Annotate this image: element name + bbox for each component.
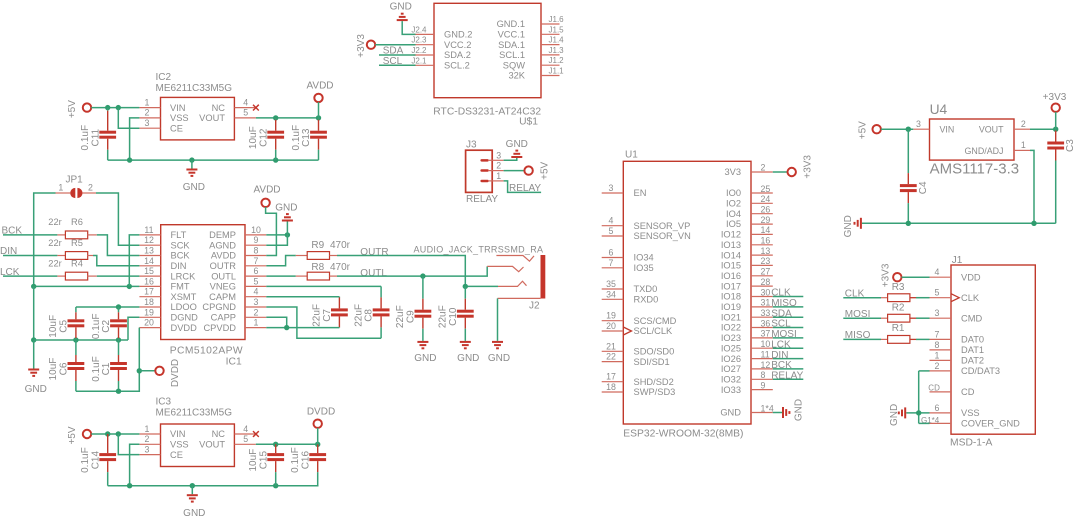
jumper JP1: [56, 174, 97, 198]
RTC pin J1.2: [541, 56, 564, 65]
J3 pin 2 contact: [480, 161, 503, 172]
svg-text:3: 3: [496, 150, 501, 160]
supply DVDD (IC3 out): [307, 406, 335, 428]
svg-text:GND: GND: [25, 384, 47, 395]
node GND tap (IC3): [190, 483, 195, 488]
J1 pin 1 DAT2: [930, 350, 952, 360]
svg-text:AMS1117-3.3: AMS1117-3.3: [930, 161, 1020, 178]
svg-text:13: 13: [144, 246, 154, 256]
capacitor C10: [438, 286, 474, 341]
svg-text:DVDD: DVDD: [170, 359, 181, 387]
svg-text:10: 10: [761, 339, 771, 349]
svg-text:470r: 470r: [330, 262, 351, 273]
svg-text:LCK: LCK: [771, 339, 791, 350]
wire GND mid rail: [34, 339, 128, 341]
wire pin10 DEMP: [266, 234, 287, 236]
svg-text:C11: C11: [90, 128, 101, 146]
svg-text:VOUT: VOUT: [199, 440, 225, 450]
svg-text:IO5: IO5: [726, 219, 741, 229]
svg-text:VCC.1: VCC.1: [498, 30, 525, 40]
net label MISO (U1): [771, 298, 803, 309]
svg-text:CAPM: CAPM: [209, 292, 236, 302]
svg-text:VIN: VIN: [170, 429, 186, 439]
wire R6 to BCK pin13: [97, 235, 140, 256]
IC2 pin 4 NC (unconnected): [234, 97, 258, 110]
svg-text:2: 2: [761, 162, 766, 172]
svg-text:+5V: +5V: [858, 121, 869, 139]
svg-text:SQW: SQW: [503, 60, 525, 70]
resistor R6 22r: [48, 217, 97, 239]
IC1 pin 12 SCK: [139, 235, 160, 245]
svg-text:DEMP: DEMP: [209, 230, 236, 240]
IC3 pin 4 NC (unconnected): [234, 424, 258, 437]
svg-text:3: 3: [916, 119, 921, 129]
wire GND rail (IC3): [108, 485, 319, 487]
supply +5V (U4): [858, 121, 881, 139]
svg-text:1: 1: [254, 318, 259, 328]
svg-text:+3V3: +3V3: [881, 263, 892, 287]
svg-text:18: 18: [606, 382, 616, 392]
svg-text:14: 14: [144, 256, 154, 266]
node +5V/C11: [105, 105, 110, 110]
svg-text:IO19: IO19: [721, 302, 741, 312]
net label OUTL: [360, 268, 387, 279]
svg-text:R8: R8: [311, 262, 324, 273]
RTC pin J2.1: [411, 56, 434, 65]
J1 pin 7 DAT0: [930, 329, 952, 339]
svg-text:DVDD: DVDD: [307, 406, 335, 417]
svg-text:IO34: IO34: [634, 253, 654, 263]
svg-text:IC3: IC3: [156, 397, 172, 408]
wire RTC VCC.2: [375, 44, 415, 46]
wire mid rail down to ground: [33, 340, 35, 369]
svg-text:4: 4: [243, 424, 248, 434]
capacitor C2: [91, 307, 127, 340]
svg-text:RELAY: RELAY: [466, 194, 498, 205]
svg-text:SHD/SD2: SHD/SD2: [634, 377, 674, 387]
svg-text:3: 3: [935, 308, 940, 318]
node VOUT/C12: [273, 115, 278, 120]
svg-text:GND: GND: [183, 508, 205, 519]
svg-text:GND: GND: [506, 139, 528, 150]
svg-text:OUTR: OUTR: [210, 261, 237, 271]
J1 pin 4 VDD: [930, 267, 952, 277]
svg-text:R9: R9: [311, 240, 324, 251]
net label MOSI + wire: [843, 309, 881, 320]
svg-text:R3: R3: [892, 282, 905, 293]
svg-text:VIN: VIN: [940, 125, 955, 135]
svg-text:22: 22: [606, 352, 616, 362]
net label BCK (U1): [771, 360, 803, 371]
svg-text:C6: C6: [59, 362, 70, 375]
node VOUT/AVDD/C13: [316, 115, 321, 120]
capacitor C12: [248, 118, 284, 160]
wire jack sleeve to ground: [497, 298, 499, 341]
IC2 pin 1 VIN: [139, 97, 160, 107]
svg-text:34: 34: [606, 289, 616, 299]
J1 pin 6 VSS: [930, 403, 952, 413]
wire FLT to FMT: [129, 235, 139, 287]
IC1 pin 14 DIN: [139, 256, 160, 266]
svg-text:DAT2: DAT2: [961, 356, 984, 366]
node +5V/CE: [116, 105, 121, 110]
IC1 pin 11 FLT: [139, 225, 160, 235]
svg-text:25: 25: [761, 184, 771, 194]
net label LCK (U1): [771, 339, 803, 350]
svg-text:GND: GND: [889, 404, 900, 426]
net label SDA (U1): [771, 308, 803, 319]
svg-text:J2.2: J2.2: [411, 46, 427, 55]
svg-text:J1.3: J1.3: [549, 46, 565, 55]
net label DIN (U1): [771, 350, 803, 361]
U1 pin 13 IO14: [751, 246, 773, 256]
svg-text:+3V3: +3V3: [356, 34, 367, 58]
svg-text:DVDD: DVDD: [171, 323, 198, 333]
U1 pin 27 IO16: [751, 267, 773, 277]
svg-text:IO16: IO16: [721, 271, 741, 281]
svg-text:CD/DAT3: CD/DAT3: [961, 366, 1000, 376]
node VOUT/C3: [1053, 127, 1058, 132]
svg-text:J2: J2: [529, 301, 540, 312]
U1 pin 3 EN: [602, 183, 624, 193]
IC1 pin 4 CAPM: [245, 287, 266, 297]
wire OUTL to jack: [337, 266, 487, 276]
net label SCL (U1): [771, 319, 803, 330]
ground (C9): [414, 341, 436, 364]
svg-text:TXD0: TXD0: [634, 284, 658, 294]
RTC pin J1.3: [541, 46, 564, 55]
svg-text:2: 2: [145, 434, 150, 444]
ground (J3): [506, 139, 528, 158]
supply +5V (J3): [524, 161, 550, 179]
IC1 pin 8 AVDD: [245, 246, 266, 256]
svg-text:IO21: IO21: [721, 312, 741, 322]
svg-text:J2.1: J2.1: [411, 56, 427, 65]
svg-text:J1.2: J1.2: [549, 56, 565, 65]
resistor R1: [881, 323, 930, 343]
svg-text:GND: GND: [390, 2, 412, 13]
U1 pin 16 IO13: [751, 236, 773, 246]
ground (C10): [457, 341, 479, 364]
svg-text:GND: GND: [457, 353, 479, 364]
svg-text:2: 2: [254, 307, 259, 317]
IC3 pin 1 VIN: [139, 424, 160, 434]
capacitor C3: [1047, 129, 1076, 223]
capacitor C4: [900, 129, 929, 223]
ground (U1): [782, 399, 805, 421]
svg-text:1*4: 1*4: [761, 403, 774, 413]
regulator U4 AMS1117-3.3: [930, 102, 1020, 177]
net label RELAY + wire (J3 pin1): [504, 181, 542, 194]
svg-text:GND: GND: [488, 353, 510, 364]
svg-text:SCL.1: SCL.1: [499, 50, 525, 60]
svg-text:LDOO: LDOO: [171, 302, 197, 312]
wire VSS to GND rail: [130, 118, 140, 160]
IC1 pin 3 CPGND: [245, 297, 266, 307]
U1 pin 36 IO22: [751, 318, 773, 328]
svg-text:MSD-1-A: MSD-1-A: [950, 438, 992, 449]
wire 3V3 to +3V3: [773, 171, 788, 173]
svg-text:23: 23: [761, 256, 771, 266]
wire +5V to VIN (U4): [881, 128, 913, 130]
svg-text:GND.2: GND.2: [444, 30, 472, 40]
capacitor C16: [290, 444, 326, 485]
U1 pin 19 SCS/CMD: [602, 311, 624, 321]
svg-text:BCK: BCK: [771, 360, 792, 371]
U1 pin 26 IO4: [751, 205, 773, 215]
net label CLK + wire: [843, 289, 881, 300]
svg-text:SDO/SD0: SDO/SD0: [634, 347, 675, 357]
svg-text:J3: J3: [466, 139, 477, 150]
svg-text:IO18: IO18: [721, 292, 741, 302]
wire GND/ADJ drop: [1030, 150, 1034, 223]
svg-text:RXD0: RXD0: [634, 295, 659, 305]
wire +3V3 to VDD: [902, 276, 930, 278]
wire OUTR to jack: [337, 256, 465, 287]
svg-text:22r: 22r: [48, 238, 61, 248]
U1 pin 5 SENSOR_VN: [602, 226, 624, 236]
supply +3V3 (RTC): [356, 34, 375, 58]
svg-text:5: 5: [609, 226, 614, 236]
svg-text:C4: C4: [918, 181, 929, 194]
net label CLK (U1): [771, 288, 803, 299]
svg-text:8: 8: [761, 370, 766, 380]
node +5V/C14: [105, 431, 110, 436]
ground (J2 sleeve): [488, 341, 510, 364]
svg-text:9: 9: [254, 235, 259, 245]
svg-text:GND: GND: [275, 203, 297, 214]
svg-text:IO32: IO32: [721, 375, 741, 385]
svg-text:SENSOR_VN: SENSOR_VN: [634, 231, 691, 241]
svg-text:C16: C16: [300, 450, 311, 469]
capacitor C7: [312, 297, 348, 328]
IC3 pin 5 VOUT: [234, 434, 256, 444]
svg-text:SENSOR_VP: SENSOR_VP: [634, 221, 691, 231]
svg-text:470r: 470r: [330, 240, 351, 251]
IC1 pin 15 LRCK: [139, 266, 160, 276]
net label MISO + wire: [843, 330, 881, 341]
svg-text:LRCK: LRCK: [171, 271, 197, 281]
svg-text:NC: NC: [212, 429, 226, 439]
node VSS junction: [916, 410, 921, 415]
svg-text:C13: C13: [301, 128, 312, 147]
U1 pin 22 SDI/SD1: [602, 352, 624, 362]
svg-text:IO2: IO2: [726, 199, 741, 209]
capacitor C14: [80, 434, 116, 486]
svg-text:2: 2: [1021, 119, 1026, 129]
svg-text:GND: GND: [183, 182, 205, 193]
svg-text:CE: CE: [170, 450, 183, 460]
wire pin20 DVDD: [138, 327, 140, 329]
svg-text:5: 5: [935, 288, 940, 298]
IC1 pin 18 LDOO: [139, 297, 160, 307]
resistor R5 22r: [48, 238, 93, 260]
svg-text:R1: R1: [892, 323, 905, 334]
wire CAPM to C7: [266, 296, 339, 298]
supply +5V (IC2): [67, 100, 91, 118]
J1 pin 3 CMD: [930, 308, 952, 318]
svg-text:1: 1: [496, 171, 501, 181]
svg-text:5: 5: [254, 276, 259, 286]
U1 pin 37 IO23: [751, 329, 773, 339]
svg-text:20: 20: [606, 321, 616, 331]
node DVDD tap: [137, 368, 142, 373]
wire VSS to GND rail (IC3): [130, 444, 140, 485]
wire VNEG to C8: [266, 285, 381, 287]
wire J3 pin2 to +5V: [504, 170, 525, 172]
svg-text:DAT0: DAT0: [961, 335, 984, 345]
U1 pin 17 SHD/SD2: [602, 372, 624, 382]
IC1 pin 20 DVDD: [139, 318, 160, 328]
RTC pin J2.3: [411, 36, 434, 45]
node VSS/GND rail: [127, 157, 132, 162]
svg-text:+5V: +5V: [67, 100, 78, 118]
RTC pin J1.5: [541, 25, 564, 34]
RTC pin J1.6: [541, 15, 564, 24]
svg-text:C5: C5: [59, 319, 70, 332]
svg-text:3: 3: [609, 183, 614, 193]
svg-text:11: 11: [144, 225, 153, 235]
svg-text:RELAY: RELAY: [509, 183, 541, 194]
svg-text:OUTR: OUTR: [360, 247, 388, 258]
U1 pin 23 IO15: [751, 256, 773, 266]
svg-text:CE: CE: [170, 123, 183, 133]
svg-text:16: 16: [761, 236, 771, 246]
svg-text:3V3: 3V3: [724, 167, 741, 177]
node C15/GND rail: [273, 483, 278, 488]
svg-text:CMD: CMD: [961, 313, 982, 323]
capacitor C13: [291, 118, 327, 160]
U1 pin 6 IO34: [602, 248, 624, 258]
wire DVDD to supply: [139, 370, 155, 372]
capacitor C9: [395, 276, 431, 341]
svg-text:VSS: VSS: [170, 113, 189, 123]
node FLT drop/FMT: [127, 284, 132, 289]
capacitor C11: [80, 108, 116, 161]
svg-text:C12: C12: [258, 128, 269, 147]
svg-text:DIN: DIN: [171, 261, 187, 271]
wire R5 to DIN pin14: [93, 256, 139, 266]
node CAPP/CPVDD: [284, 325, 289, 330]
wire LDOO rail: [76, 306, 139, 308]
svg-text:20: 20: [144, 318, 154, 328]
svg-text:36: 36: [761, 318, 771, 328]
wire DGND to mid rail: [128, 317, 139, 340]
svg-text:VDD: VDD: [961, 272, 981, 282]
ground (U4): [843, 215, 862, 237]
wire DVDD to rail (IC3): [317, 428, 319, 444]
audio jack J2 AUDIO_JACK_TRRSSMD_RA: [487, 255, 545, 312]
wire VOUT rail (IC3): [256, 443, 319, 445]
IC1 pin 2 CAPP: [245, 307, 266, 317]
node C2/LDOO: [116, 304, 121, 309]
svg-text:8: 8: [254, 246, 259, 256]
node GND tap: [189, 157, 194, 162]
wire AVDD to pin8: [266, 207, 277, 256]
resistor R3: [881, 282, 930, 302]
microSD socket J1 MSD-1-A: [950, 255, 1035, 449]
U1 pin 18 SWP/SD3: [602, 382, 624, 392]
wire R4 to LRCK pin15: [97, 275, 140, 277]
svg-text:6: 6: [935, 403, 940, 413]
IC1 pin 19 DGND: [139, 307, 160, 317]
svg-text:IO13: IO13: [721, 240, 741, 250]
wire left GND drop: [33, 286, 35, 340]
U1 pin 20 SCL/CLK: [602, 321, 632, 335]
svg-text:7: 7: [254, 256, 259, 266]
capacitor C5: [48, 307, 84, 340]
U1 pin 24 IO2: [751, 194, 773, 204]
svg-text:EN: EN: [634, 188, 647, 198]
supply DVDD (IC1): [155, 359, 181, 387]
ground (J1): [889, 404, 906, 426]
svg-text:1: 1: [58, 182, 63, 192]
svg-text:5: 5: [243, 434, 248, 444]
svg-text:U4: U4: [930, 102, 948, 117]
svg-text:ME6211C33M5G: ME6211C33M5G: [156, 83, 233, 94]
IC1 pin 6 OUTL: [245, 266, 266, 276]
IC3 pin 2 VSS: [139, 434, 160, 444]
U4 pin 1 GND/ADJ: [1014, 140, 1030, 150]
svg-text:IO25: IO25: [721, 343, 741, 353]
node C2 mid rail: [116, 337, 121, 342]
svg-text:ESP32-WROOM-32(8MB): ESP32-WROOM-32(8MB): [623, 428, 743, 439]
svg-text:IO17: IO17: [721, 281, 741, 291]
svg-text:1: 1: [145, 424, 150, 434]
regulator IC2 ME6211C33M5G: [156, 72, 235, 140]
U1 pin 2 3V3: [751, 162, 773, 172]
ground (IC1 AGND): [275, 203, 297, 222]
IC1 pin 17 XSMT: [139, 287, 160, 297]
svg-text:AUDIO_JACK_TRRSSMD_RA: AUDIO_JACK_TRRSSMD_RA: [414, 245, 544, 255]
svg-text:IO4: IO4: [726, 209, 741, 219]
svg-text:15: 15: [144, 266, 154, 276]
svg-text:IO23: IO23: [721, 333, 741, 343]
RTC module U$1 RTC-DS3231-AT24C32: [433, 3, 541, 127]
svg-text:IO15: IO15: [721, 261, 741, 271]
svg-text:VOUT: VOUT: [199, 113, 225, 123]
capacitor C1: [91, 340, 127, 391]
svg-text:DGND: DGND: [171, 313, 199, 323]
svg-text:+5V: +5V: [540, 161, 551, 179]
wire RTC GND.2: [402, 21, 415, 34]
supply +5V (IC3): [67, 426, 91, 444]
net label SDA + wire: [379, 46, 416, 57]
net label AUDIO_JACK_TRRSSMD_RA: [414, 245, 544, 255]
U1 pin 11 IO26: [751, 349, 773, 359]
svg-text:5: 5: [243, 108, 248, 118]
svg-text:2: 2: [935, 361, 940, 371]
svg-text:+5V: +5V: [67, 426, 78, 444]
svg-text:SCS/CMD: SCS/CMD: [634, 316, 677, 326]
svg-text:CD: CD: [928, 384, 940, 393]
wire VOUT to +3V3: [1030, 128, 1056, 130]
wire JP1 pin1 to FMT/GND rail: [34, 193, 56, 286]
J1 pin 2 CD/DAT3: [930, 361, 952, 371]
wire GND (U1): [773, 412, 782, 414]
svg-text:VOUT: VOUT: [979, 125, 1004, 135]
svg-text:11: 11: [761, 349, 770, 359]
resistor R2: [881, 303, 930, 323]
svg-text:14: 14: [761, 225, 771, 235]
ground (RTC): [390, 2, 412, 22]
svg-text:C15: C15: [258, 450, 269, 469]
svg-text:22r: 22r: [48, 259, 61, 269]
svg-text:13: 13: [761, 246, 771, 256]
svg-text:CLK: CLK: [771, 288, 791, 299]
svg-text:IC2: IC2: [156, 72, 172, 83]
svg-text:GND: GND: [794, 399, 805, 421]
